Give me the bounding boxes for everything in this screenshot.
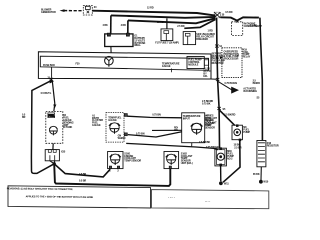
svg-text:UNIT (EZL): UNIT (EZL) <box>181 162 193 165</box>
svg-text:PROCESSOR: PROCESSOR <box>224 58 239 61</box>
svg-text:0.75 BK: 0.75 BK <box>202 103 211 106</box>
svg-text:BR: BR <box>22 116 26 119</box>
svg-text:0.75 BN: 0.75 BN <box>152 114 161 117</box>
svg-text:FUEL: FUEL <box>48 115 55 118</box>
svg-text:EZL: EZL <box>203 75 208 78</box>
svg-text:IN RUNNING: IN RUNNING <box>243 90 257 93</box>
svg-text:0.75 BN: 0.75 BN <box>136 132 145 135</box>
svg-text:0.75 BK/GN: 0.75 BK/GN <box>206 146 219 149</box>
svg-text:12 RD: 12 RD <box>147 7 154 10</box>
svg-text:2.5 RD: 2.5 RD <box>177 25 184 28</box>
svg-text:GAUGE: GAUGE <box>162 65 171 68</box>
svg-text:WH/RD: WH/RD <box>118 137 126 140</box>
svg-text:85 BK: 85 BK <box>253 173 260 176</box>
svg-text:. .. . .: . .. . . <box>168 195 175 199</box>
svg-text:0.5 BR: 0.5 BR <box>79 173 86 176</box>
svg-text:FUSE BOX: FUSE BOX <box>43 64 55 67</box>
svg-text:RESISTOR: RESISTOR <box>267 144 279 147</box>
svg-text:2.5 BK/RD: 2.5 BK/RD <box>224 113 235 116</box>
svg-text:0.5 RD: 0.5 RD <box>225 11 232 14</box>
svg-text:2.5 BR/BK: 2.5 BR/BK <box>199 141 210 144</box>
svg-text:NO 2: NO 2 <box>227 157 233 160</box>
svg-text:0.75 BK/GN: 0.75 BK/GN <box>225 82 238 85</box>
svg-text:GAUGE: GAUGE <box>92 124 101 127</box>
svg-text:RESISTOR: RESISTOR <box>212 62 224 65</box>
svg-text:.. . .: .. . . <box>205 199 210 203</box>
svg-text:GENERATOR: GENERATOR <box>41 11 56 14</box>
svg-text:X35: X35 <box>61 151 66 154</box>
svg-text:4 RD: 4 RD <box>121 24 127 27</box>
svg-text:13 RD: 13 RD <box>157 21 164 24</box>
svg-text:W11: W11 <box>224 183 229 186</box>
svg-text:RELAY: RELAY <box>243 56 251 59</box>
svg-text:F1/7 FUSE 7 (16 AMP): F1/7 FUSE 7 (16 AMP) <box>155 42 179 45</box>
svg-text:0.5 BK/YL: 0.5 BK/YL <box>41 92 52 95</box>
svg-text:WH: WH <box>174 129 178 132</box>
svg-text:INPUT: INPUT <box>183 117 191 120</box>
svg-text:WELL: WELL <box>134 44 141 47</box>
svg-text:COMPARTMENT: COMPARTMENT <box>244 25 263 28</box>
svg-text:IN TANK: IN TANK <box>63 126 72 129</box>
svg-text:SENSOR: SENSOR <box>205 126 215 129</box>
svg-text:4 BK: 4 BK <box>103 24 109 27</box>
svg-text:0.5 BR: 0.5 BR <box>79 180 86 183</box>
svg-text:1 RD: 1 RD <box>208 29 214 32</box>
svg-text:W10: W10 <box>263 181 268 184</box>
svg-text:PUMP: PUMP <box>243 131 250 134</box>
svg-text:BREAKER: BREAKER <box>196 38 208 41</box>
svg-text:2.5 BR: 2.5 BR <box>234 146 241 149</box>
svg-text:BK/RD: BK/RD <box>253 82 261 85</box>
svg-text:MODULE: MODULE <box>188 64 199 67</box>
svg-text:GAUGE: GAUGE <box>108 119 117 122</box>
svg-text:TEMP SENSOR: TEMP SENSOR <box>124 160 141 163</box>
